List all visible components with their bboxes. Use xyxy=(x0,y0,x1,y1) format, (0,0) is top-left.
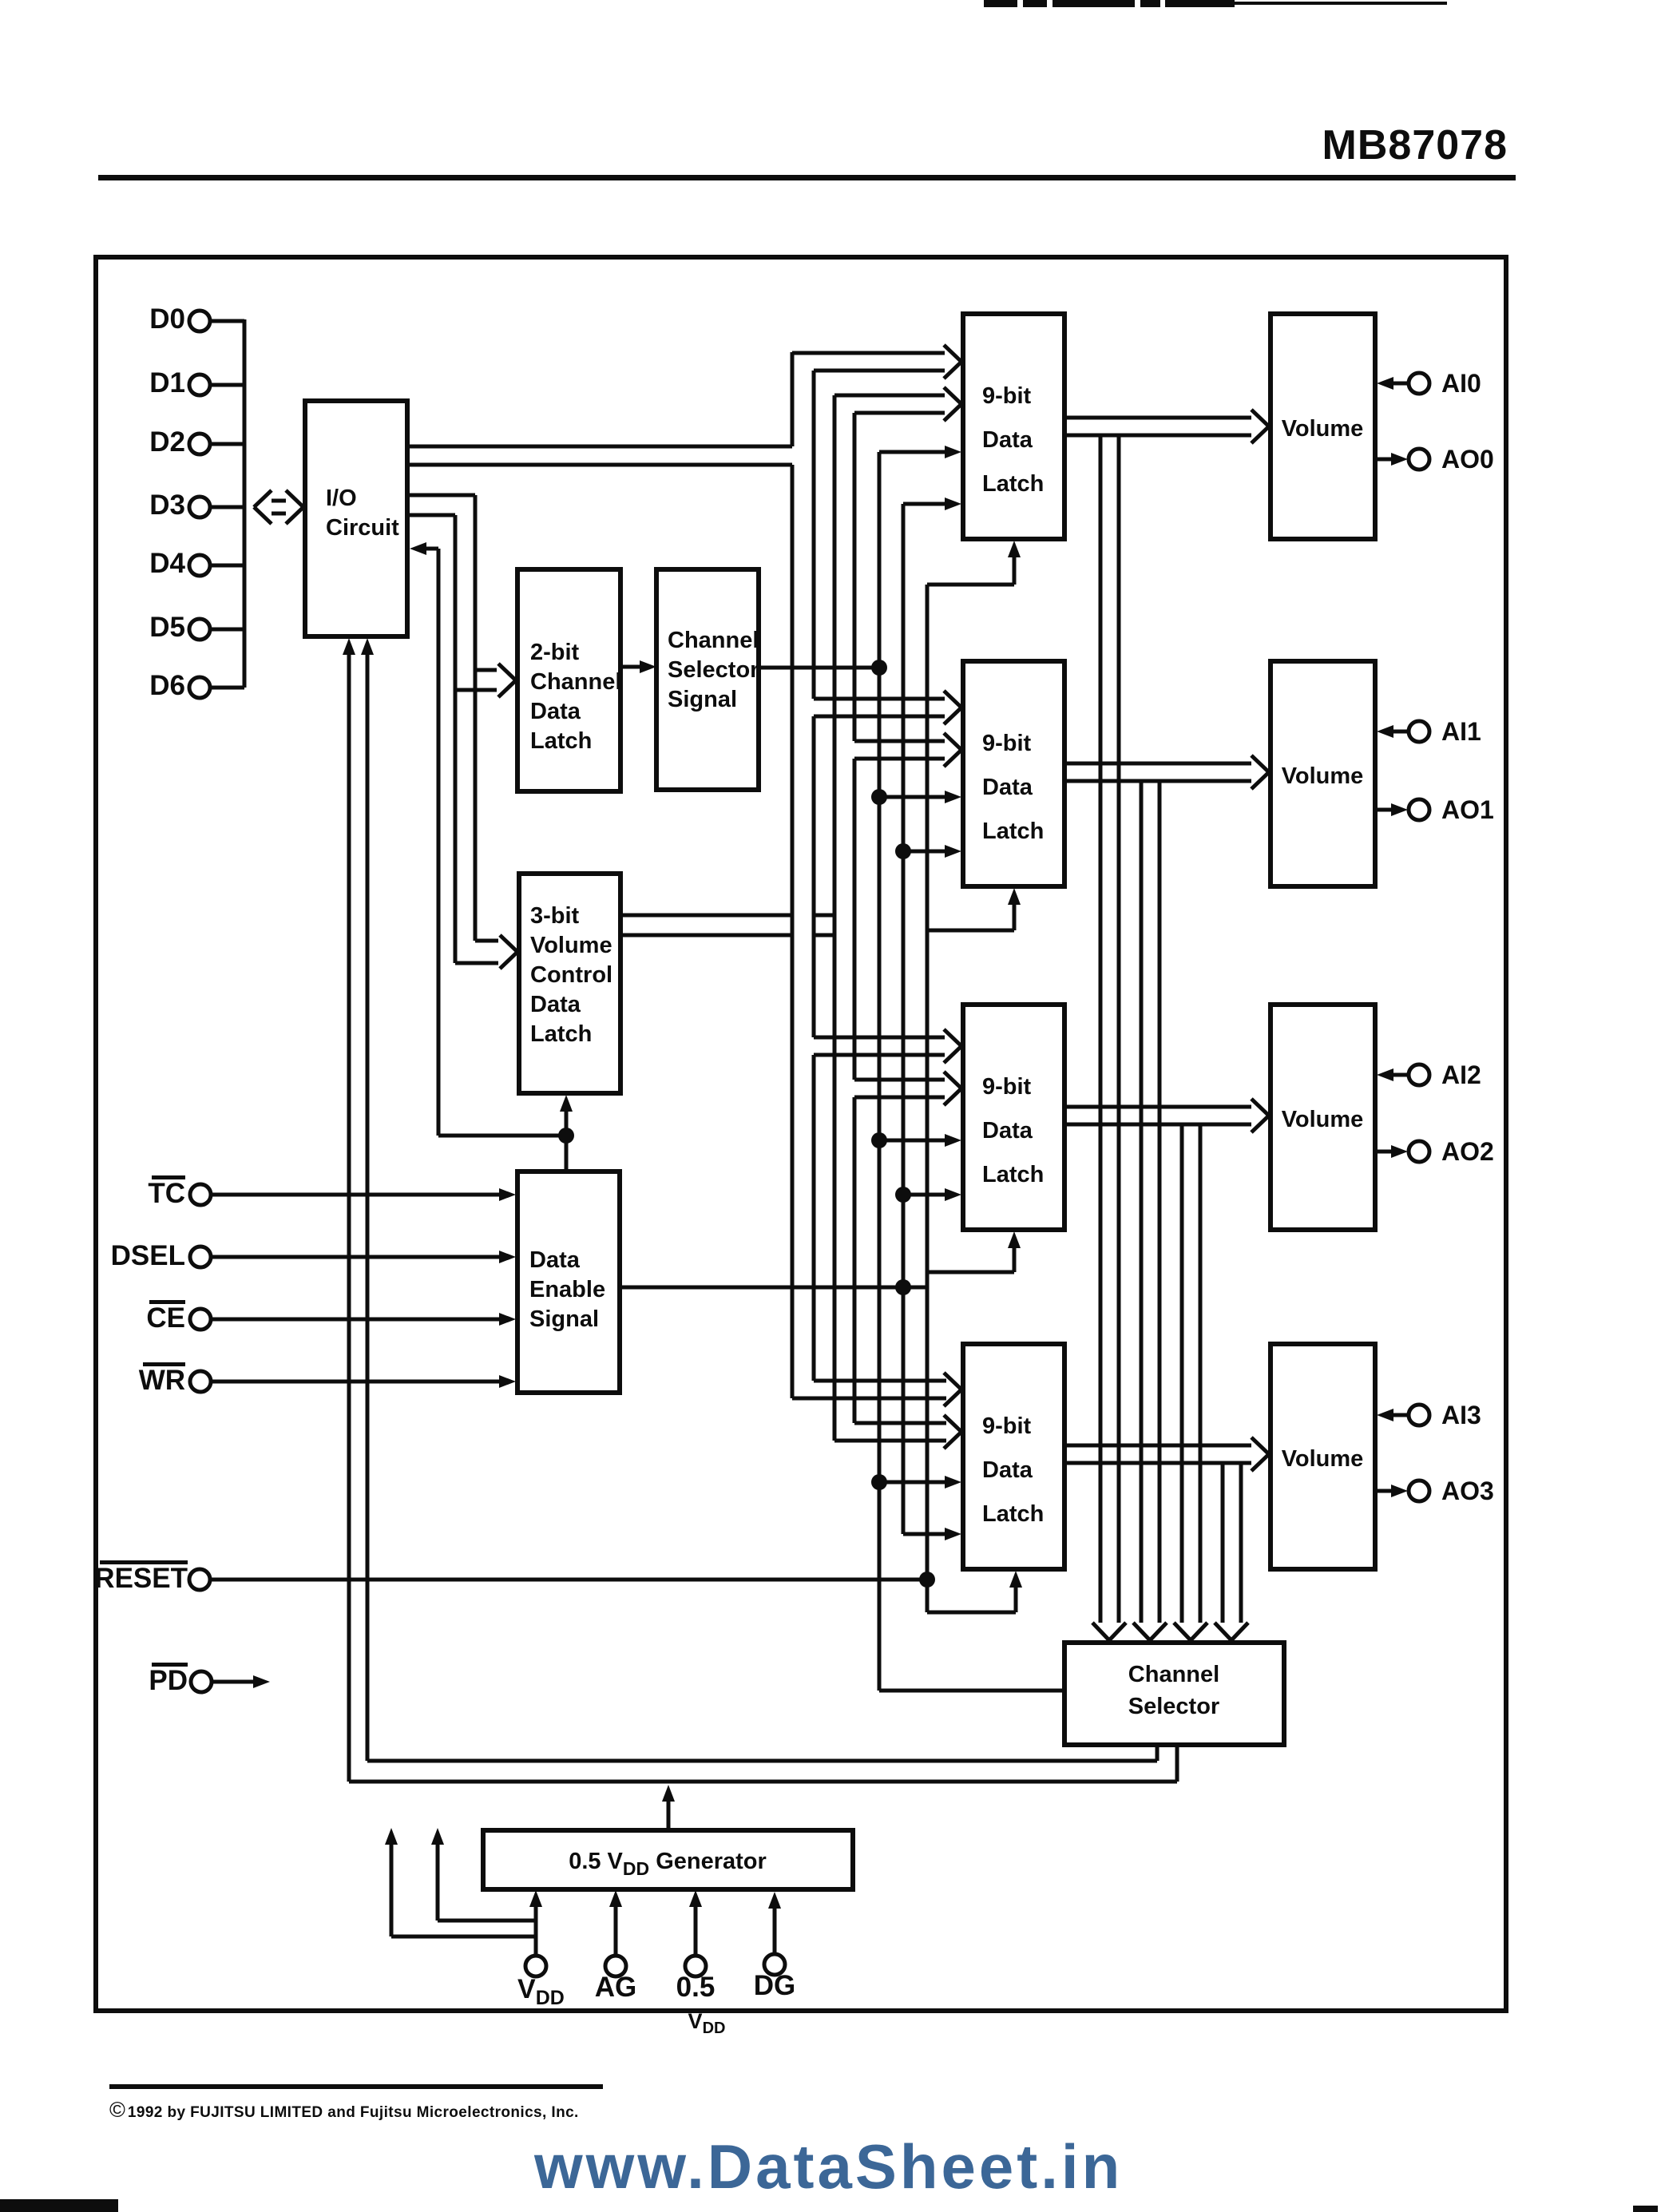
wire data-enable arrow into latch 2 xyxy=(903,1188,961,1201)
wire WR to Data Enable Signal xyxy=(211,1375,516,1388)
wire volume bus vertical left side xyxy=(833,395,837,1441)
svg-text:D2: D2 xyxy=(149,426,185,458)
svg-text:Circuit: Circuit xyxy=(326,515,399,541)
bus tap to channel selector 0 right side xyxy=(1117,435,1121,1623)
bus tap to channel selector 1 right side xyxy=(1158,781,1162,1623)
wire DG arrow into generator xyxy=(768,1892,781,1954)
block 0.5 VDD Generator xyxy=(483,1830,853,1889)
svg-text:DSEL: DSEL xyxy=(111,1240,185,1271)
svg-text:WR: WR xyxy=(139,1365,185,1396)
svg-text:Data: Data xyxy=(529,1247,581,1273)
svg-text:AG: AG xyxy=(595,1972,637,2003)
wire Data Enable Signal output xyxy=(620,1286,927,1290)
wire VDD riser into generator xyxy=(529,1890,542,1956)
wire Channel Selector Signal output xyxy=(759,666,879,670)
block 9-bit Data Latch 2 xyxy=(963,1005,1064,1230)
bus arrow data into latch 1 xyxy=(814,691,961,724)
bus arrow data into latch 2 xyxy=(814,1029,961,1063)
svg-text:D1: D1 xyxy=(149,367,185,398)
pin AO1 xyxy=(1377,795,1494,824)
block 9-bit Data Latch 3 xyxy=(963,1344,1064,1569)
bus tap to channel selector 2 right side xyxy=(1199,1124,1203,1623)
wire I/O data bus top side xyxy=(407,445,792,449)
bus arrow into volume 0 xyxy=(1251,410,1269,443)
wire 3-bit latch output top side xyxy=(620,914,834,918)
svg-text:Data: Data xyxy=(982,427,1033,453)
pin AI2 xyxy=(1377,1060,1481,1089)
wire AG arrow into generator xyxy=(609,1890,622,1956)
pin D3 xyxy=(149,490,210,521)
pin AI0 xyxy=(1377,369,1481,398)
wire data bus vertical left side xyxy=(791,352,795,1398)
svg-text:D4: D4 xyxy=(149,548,185,579)
wire D4 stub xyxy=(210,564,244,568)
wire PD stub arrow xyxy=(212,1675,270,1688)
watermark www.DataSheet.in xyxy=(533,2131,1123,2202)
block Channel Selector Signal xyxy=(656,569,759,790)
pin VDD xyxy=(517,1956,565,2009)
svg-text:Volume: Volume xyxy=(1282,416,1364,442)
scan artifact bottom-left corner xyxy=(0,2199,118,2212)
svg-text:Volume: Volume xyxy=(530,933,612,958)
bus latch 1 to volume 1 bottom side xyxy=(1064,779,1251,783)
wire channel-select vertical xyxy=(878,452,882,1691)
copyright notice xyxy=(109,2098,579,2122)
pin AG xyxy=(595,1956,637,2003)
svg-text:Data: Data xyxy=(530,699,581,724)
wire latch clock vertical xyxy=(926,585,930,1612)
block Channel Selector xyxy=(1064,1643,1284,1745)
title MB87078 xyxy=(1322,122,1508,168)
wire channel selector output A xyxy=(361,638,1157,1761)
junction data-enable tap latch 2 xyxy=(895,1187,911,1203)
pin D0 xyxy=(149,303,210,335)
pin D2 xyxy=(149,426,210,458)
pin D1 xyxy=(149,367,210,398)
block Volume 2 xyxy=(1271,1005,1375,1230)
svg-text:D3: D3 xyxy=(149,490,185,521)
bus arrow volume-control into latch 2 xyxy=(854,1072,961,1105)
outer boundary box xyxy=(96,257,1506,2011)
wire clock stub into latch 0 bottom xyxy=(927,541,1021,585)
scan artifact top edge marks xyxy=(984,0,1447,7)
svg-text:AO2: AO2 xyxy=(1441,1137,1494,1166)
pin AI3 xyxy=(1377,1401,1481,1429)
pin D5 xyxy=(149,612,210,643)
bus latch 3 to volume 3 top side xyxy=(1064,1444,1251,1448)
wire D5 stub xyxy=(210,628,244,632)
wire clock stub into latch 1 bottom xyxy=(927,888,1021,930)
junction data-enable output / v6 xyxy=(895,1279,911,1295)
wire 2-bit latch to Channel Selector Signal xyxy=(620,660,656,673)
junction RESET / enable vertical xyxy=(919,1572,935,1588)
wire channel-select arrow into latch 0 xyxy=(879,446,961,458)
bus tap to channel selector 1 left side xyxy=(1140,781,1144,1623)
block 9-bit Data Latch 0 xyxy=(963,314,1064,539)
svg-text:9-bit: 9-bit xyxy=(982,1413,1032,1439)
svg-text:D5: D5 xyxy=(149,612,185,643)
svg-text:RESET: RESET xyxy=(94,1563,188,1594)
junction channel-select tap latch 1 xyxy=(871,789,887,805)
bus latch 3 to volume 3 bottom side xyxy=(1064,1461,1251,1465)
bus arrow volume-control into latch 1 xyxy=(854,733,961,767)
wire VDD branch upper xyxy=(431,1828,536,1921)
wire I/O data bus bottom side xyxy=(407,463,792,467)
svg-text:Signal: Signal xyxy=(668,687,737,712)
pin PD xyxy=(149,1663,212,1696)
bus latch 1 to volume 1 top side xyxy=(1064,762,1251,766)
wire 0.5VDD arrow into generator xyxy=(689,1890,702,1956)
svg-text:Channel: Channel xyxy=(530,669,621,695)
svg-text:Data: Data xyxy=(982,1457,1033,1483)
bus arrow into channel selector 0 xyxy=(1092,1623,1126,1640)
wire clock stub into latch 3 bottom xyxy=(927,1571,1022,1612)
svg-text:Control: Control xyxy=(530,962,612,988)
pin RESET xyxy=(94,1560,210,1594)
svg-text:MB87078: MB87078 xyxy=(1322,122,1508,168)
svg-text:Channel: Channel xyxy=(1128,1662,1219,1687)
bus arrow into 2-bit Channel Data Latch xyxy=(455,664,516,697)
pin D6 xyxy=(149,670,210,701)
svg-text:Data: Data xyxy=(982,1118,1033,1144)
pin DG xyxy=(754,1954,796,2001)
bidirectional bus arrow to I/O circuit xyxy=(254,490,303,524)
svg-text:Latch: Latch xyxy=(982,471,1044,497)
bus latch 2 to volume 2 top side xyxy=(1064,1105,1251,1109)
wire D6 stub xyxy=(210,686,244,690)
svg-text:Data: Data xyxy=(530,992,581,1017)
bus tap to channel selector 3 left side xyxy=(1221,1463,1225,1623)
bus latch 0 to volume 0 top side xyxy=(1064,416,1251,420)
wire channel selector output B xyxy=(343,638,1177,1782)
svg-text:Signal: Signal xyxy=(529,1306,599,1332)
wire TC to Data Enable Signal xyxy=(211,1188,516,1201)
svg-text:Selector: Selector xyxy=(1128,1694,1219,1719)
svg-text:Latch: Latch xyxy=(530,728,592,754)
pin DSEL xyxy=(111,1240,211,1271)
svg-text:Volume: Volume xyxy=(1282,763,1364,789)
svg-text:3-bit: 3-bit xyxy=(530,903,580,929)
wire channel-select into Channel Selector xyxy=(879,1689,1064,1693)
bus arrow into channel selector 2 xyxy=(1174,1623,1207,1640)
bus tap to channel selector 0 left side xyxy=(1099,435,1103,1623)
junction channel-select tap latch 3 xyxy=(871,1474,887,1490)
pin WR xyxy=(139,1362,211,1396)
wire enable feedback to I/O circuit xyxy=(410,542,566,1136)
svg-text:AO1: AO1 xyxy=(1441,795,1494,824)
svg-text:Latch: Latch xyxy=(982,1162,1044,1187)
copyright rule xyxy=(109,2084,603,2089)
wire clock arrow into 3-bit latch bottom xyxy=(560,1095,573,1136)
junction data-enable tap latch 1 xyxy=(895,843,911,859)
block Volume 1 xyxy=(1271,661,1375,886)
wire volume bus vertical right side xyxy=(853,413,857,1423)
pin 0.5VDD xyxy=(676,1956,726,2037)
wire D0 stub xyxy=(210,319,244,323)
bus tap to channel selector 3 right side xyxy=(1239,1463,1243,1623)
svg-text:D6: D6 xyxy=(149,670,185,701)
wire D1 stub xyxy=(210,383,244,387)
svg-text:Latch: Latch xyxy=(982,819,1044,844)
svg-text:www.DataSheet.in: www.DataSheet.in xyxy=(533,2131,1123,2202)
block Volume 0 xyxy=(1271,314,1375,539)
wire generator output arrow xyxy=(662,1785,675,1830)
bus latch 0 to volume 0 bottom side xyxy=(1064,434,1251,438)
svg-text:AO3: AO3 xyxy=(1441,1477,1494,1505)
wire RESET line xyxy=(210,1578,927,1582)
wire data-enable arrow into latch 0 xyxy=(903,498,961,510)
svg-text:AI0: AI0 xyxy=(1441,369,1481,398)
bus arrow into channel selector 3 xyxy=(1215,1623,1248,1640)
svg-text:AI2: AI2 xyxy=(1441,1060,1481,1089)
wire enable feedback to Data Enable Signal top xyxy=(565,1136,569,1171)
bus arrow into volume 2 xyxy=(1251,1099,1269,1132)
svg-text:Volume: Volume xyxy=(1282,1107,1364,1132)
wire channel-select arrow into latch 1 xyxy=(879,791,961,803)
svg-text:Data: Data xyxy=(982,775,1033,800)
svg-text:TC: TC xyxy=(148,1178,185,1209)
bus arrow volume-control into latch 0 xyxy=(834,387,961,421)
pin AO0 xyxy=(1377,445,1494,474)
svg-text:D0: D0 xyxy=(149,303,185,335)
wire 3-bit latch output bottom side xyxy=(620,934,834,938)
junction channel-select tap latch 2 xyxy=(871,1132,887,1148)
block I/O Circuit xyxy=(305,401,407,636)
wire D3 stub xyxy=(210,505,244,509)
title rule xyxy=(98,175,1516,180)
svg-text:PD: PD xyxy=(149,1665,188,1696)
svg-text:Latch: Latch xyxy=(982,1501,1044,1527)
bus arrow into volume 3 xyxy=(1251,1437,1269,1471)
block Data Enable Signal xyxy=(517,1171,620,1393)
wire D2 stub xyxy=(210,442,244,446)
svg-text:9-bit: 9-bit xyxy=(982,1074,1032,1100)
block 2-bit Channel Data Latch xyxy=(517,569,621,791)
bus latch 2 to volume 2 bottom side xyxy=(1064,1123,1251,1127)
svg-text:Channel: Channel xyxy=(668,628,759,653)
wire I/O to channel/volume latch bus bottom side xyxy=(407,515,455,963)
wire data-enable arrow into latch 1 xyxy=(903,845,961,858)
wire channel-select arrow into latch 2 xyxy=(879,1134,961,1147)
bus arrow data into latch 0 xyxy=(792,345,961,379)
wire channel-select arrow into latch 3 xyxy=(879,1476,961,1489)
pin D4 xyxy=(149,548,210,579)
block 9-bit Data Latch 1 xyxy=(963,661,1064,886)
scan artifact bottom-right corner xyxy=(1633,2206,1658,2212)
svg-text:Enable: Enable xyxy=(529,1277,605,1302)
svg-text:Volume: Volume xyxy=(1282,1446,1364,1472)
wire data pin bus xyxy=(243,319,247,688)
svg-text:AI1: AI1 xyxy=(1441,717,1481,746)
svg-text:Selector: Selector xyxy=(668,657,759,683)
bus tap to channel selector 2 left side xyxy=(1180,1124,1184,1623)
block Volume 3 xyxy=(1271,1344,1375,1569)
bus arrow volume-control into latch 3 xyxy=(834,1415,961,1449)
pin TC xyxy=(148,1175,211,1209)
bus arrow into 3-bit Volume Control Data Latch xyxy=(455,935,517,969)
svg-text:2-bit: 2-bit xyxy=(530,640,580,665)
bus arrow data into latch 3 xyxy=(792,1373,961,1406)
svg-text:AI3: AI3 xyxy=(1441,1401,1481,1429)
wire CE to Data Enable Signal xyxy=(211,1313,516,1326)
pin AI1 xyxy=(1377,717,1481,746)
bus arrow into channel selector 1 xyxy=(1133,1623,1167,1640)
wire I/O to channel/volume latch bus top side xyxy=(407,495,475,941)
wire data-enable vertical xyxy=(902,504,906,1534)
svg-text:0.5: 0.5 xyxy=(676,1972,716,2003)
wire DSEL to Data Enable Signal xyxy=(211,1251,516,1263)
wire clock stub into latch 2 bottom xyxy=(927,1231,1021,1272)
svg-text:DG: DG xyxy=(754,1970,796,2001)
junction channel select / v5 xyxy=(871,660,887,676)
svg-text:Latch: Latch xyxy=(530,1021,592,1047)
svg-text:CE: CE xyxy=(146,1302,185,1334)
pin AO2 xyxy=(1377,1137,1494,1166)
svg-text:I/O: I/O xyxy=(326,486,357,511)
bus arrow into volume 1 xyxy=(1251,755,1269,789)
svg-text:9-bit: 9-bit xyxy=(982,731,1032,756)
pin CE xyxy=(146,1300,211,1334)
wire data bus vertical right side xyxy=(812,371,816,1381)
wire VDD branch lower xyxy=(385,1828,536,1936)
svg-text:9-bit: 9-bit xyxy=(982,383,1032,409)
wire data-enable arrow into latch 3 xyxy=(903,1528,961,1540)
svg-text:AO0: AO0 xyxy=(1441,445,1494,474)
block 3-bit Volume Control Data Latch xyxy=(519,874,620,1093)
junction enable feedback node xyxy=(558,1128,574,1144)
pin AO3 xyxy=(1377,1477,1494,1505)
